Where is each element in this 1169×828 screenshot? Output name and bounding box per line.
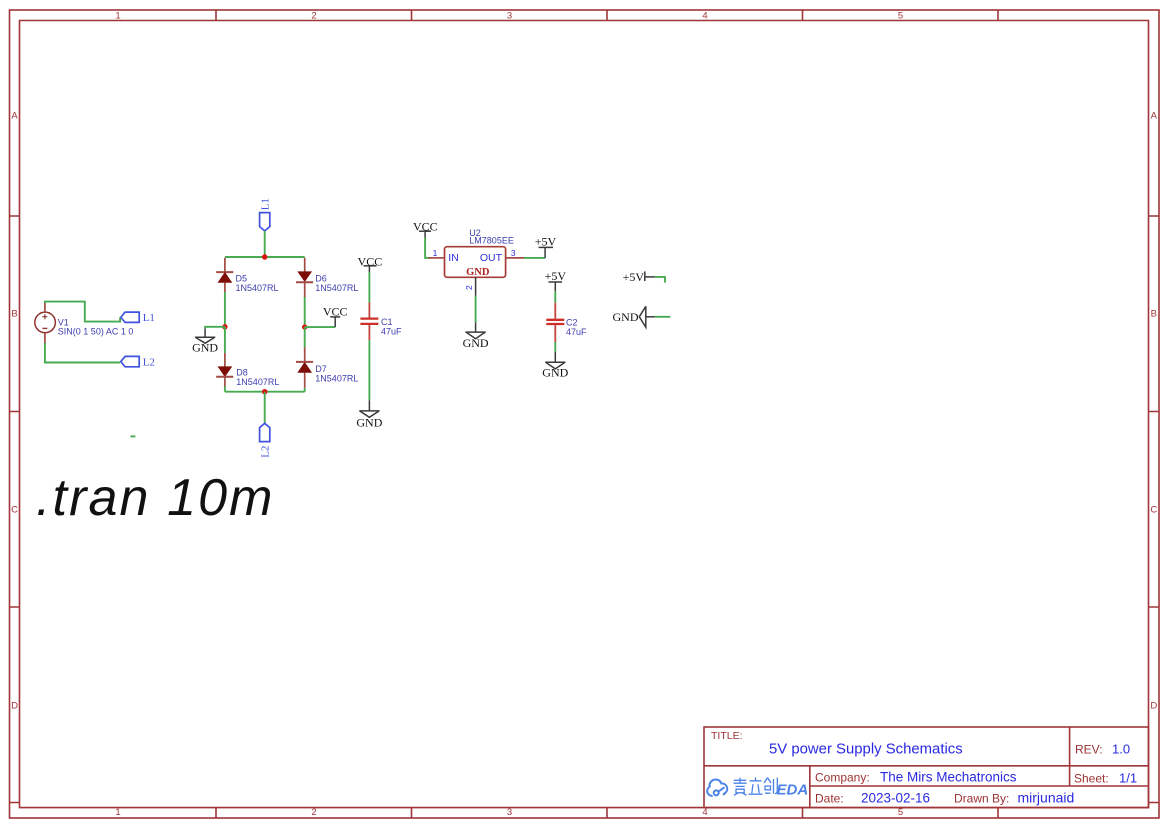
svg-text:D6: D6 bbox=[315, 274, 327, 284]
svg-text:D7: D7 bbox=[315, 364, 327, 374]
svg-text:VCC: VCC bbox=[323, 304, 348, 318]
frame row letters right bbox=[1150, 111, 1157, 712]
wire V1 bottom to L2 bbox=[45, 343, 120, 363]
svg-text:OUT: OUT bbox=[480, 252, 503, 264]
C1 labels bbox=[381, 317, 402, 337]
wire pin3 to +5V bbox=[524, 257, 545, 259]
wire C1 to GND bbox=[368, 340, 370, 400]
svg-text:mirjunaid: mirjunaid bbox=[1018, 790, 1075, 806]
svg-text:SIN(0 1 50) AC 1 0: SIN(0 1 50) AC 1 0 bbox=[58, 326, 134, 336]
svg-text:2: 2 bbox=[311, 11, 316, 22]
svg-text:C2: C2 bbox=[566, 318, 578, 328]
svg-text:2: 2 bbox=[311, 807, 316, 818]
svg-text:3: 3 bbox=[507, 11, 512, 22]
wire +5V to C2 bbox=[554, 291, 556, 302]
svg-text:IN: IN bbox=[448, 252, 459, 264]
stray wire dash bbox=[130, 435, 135, 437]
svg-text:A: A bbox=[1151, 111, 1158, 122]
diode D8 bbox=[216, 353, 233, 387]
wire D8 to bottom rail bbox=[224, 387, 226, 392]
diode D6 bbox=[296, 258, 313, 297]
voltage source V1 bbox=[35, 303, 56, 343]
svg-text:1: 1 bbox=[115, 11, 120, 22]
svg-text:Drawn By:: Drawn By: bbox=[954, 792, 1009, 806]
title block bbox=[704, 727, 1149, 808]
svg-text:1N5407RL: 1N5407RL bbox=[315, 283, 358, 293]
capacitor C2 bbox=[546, 303, 564, 342]
D5 labels bbox=[236, 274, 279, 294]
svg-text:LM7805EE: LM7805EE bbox=[469, 236, 514, 246]
svg-text:Sheet:: Sheet: bbox=[1074, 772, 1109, 786]
svg-text:B: B bbox=[11, 309, 17, 320]
wire right junction to VCC stub bbox=[305, 326, 336, 328]
svg-text:GND: GND bbox=[356, 416, 382, 430]
svg-text:1N5407RL: 1N5407RL bbox=[236, 377, 279, 387]
svg-text:D5: D5 bbox=[236, 274, 248, 284]
svg-text:1.0: 1.0 bbox=[1112, 742, 1130, 757]
svg-text:L1: L1 bbox=[143, 312, 155, 324]
junction bridge right bbox=[302, 324, 307, 329]
wire pin2 to GND bbox=[475, 296, 477, 322]
svg-text:GND: GND bbox=[613, 310, 639, 324]
svg-text:EDA: EDA bbox=[777, 782, 809, 799]
svg-text:2: 2 bbox=[464, 285, 474, 290]
svg-text:+5V: +5V bbox=[623, 270, 645, 284]
C2 labels bbox=[566, 318, 587, 338]
wire left junction down bbox=[224, 327, 226, 353]
ground (C2) bbox=[545, 352, 565, 369]
svg-text:C: C bbox=[1150, 505, 1157, 516]
V1 labels bbox=[58, 318, 134, 337]
svg-text:2023-02-16: 2023-02-16 bbox=[861, 791, 930, 806]
net flag L2 (bridge bottom) bbox=[260, 423, 270, 441]
svg-text:4: 4 bbox=[702, 807, 707, 818]
svg-text:3: 3 bbox=[507, 807, 512, 818]
logo char 创 bbox=[764, 778, 777, 794]
power flag +5V (U2 out) bbox=[539, 247, 554, 258]
svg-text:VCC: VCC bbox=[358, 254, 383, 268]
ground (C1) bbox=[359, 400, 379, 417]
svg-text:C: C bbox=[11, 505, 18, 516]
svg-text:5V power Supply Schematics: 5V power Supply Schematics bbox=[769, 742, 963, 758]
wire D6 to right junction bbox=[304, 297, 306, 327]
svg-text:L1: L1 bbox=[259, 198, 271, 210]
svg-text:REV:: REV: bbox=[1075, 743, 1103, 757]
svg-text:1/1: 1/1 bbox=[1119, 771, 1137, 786]
svg-text:Company:: Company: bbox=[815, 771, 870, 785]
wire +5V floating bbox=[655, 277, 665, 283]
junction bridge top bbox=[262, 254, 267, 259]
EasyEDA logo cloud bbox=[707, 779, 727, 795]
svg-text:1: 1 bbox=[115, 807, 120, 818]
diode D7 bbox=[296, 348, 313, 388]
junction bridge left bbox=[222, 324, 227, 329]
pin 3 bbox=[506, 257, 524, 259]
net flag L1 (left) bbox=[121, 312, 139, 322]
wire V1 top to L1 bbox=[45, 302, 120, 322]
svg-text:B: B bbox=[1151, 309, 1157, 320]
pin 2 bbox=[475, 277, 477, 296]
net port +5V (floating) bbox=[623, 270, 655, 284]
svg-text:L2: L2 bbox=[143, 357, 155, 369]
net port GND (floating) bbox=[613, 306, 655, 327]
wire L1 to bridge top bbox=[264, 231, 266, 257]
power flag +5V (C2) bbox=[549, 282, 563, 291]
op-amp U2 regulator box bbox=[445, 247, 506, 278]
svg-text:5: 5 bbox=[898, 11, 903, 22]
wire bottom rail to L2 bbox=[264, 392, 266, 423]
svg-text:GND: GND bbox=[466, 267, 490, 278]
wire GND floating bbox=[655, 316, 670, 318]
svg-text:1N5407RL: 1N5407RL bbox=[315, 374, 358, 384]
svg-text:1N5407RL: 1N5407RL bbox=[236, 283, 279, 293]
svg-text:47uF: 47uF bbox=[381, 327, 402, 337]
diode D5 bbox=[216, 258, 233, 293]
svg-text:L2: L2 bbox=[259, 446, 271, 458]
wire VCC to U2 pin1 bbox=[425, 238, 429, 258]
svg-text:+5V: +5V bbox=[545, 269, 567, 283]
svg-text:4: 4 bbox=[702, 11, 707, 22]
svg-text:D8: D8 bbox=[236, 367, 248, 377]
capacitor C1 bbox=[360, 303, 378, 341]
svg-text:.tran 10m: .tran 10m bbox=[36, 469, 275, 527]
svg-text:A: A bbox=[11, 111, 18, 122]
svg-text:TITLE:: TITLE: bbox=[711, 730, 743, 742]
logo char 嘉 bbox=[734, 778, 747, 796]
wire left junction to GND stub bbox=[205, 327, 225, 329]
svg-text:The Mirs Mechatronics: The Mirs Mechatronics bbox=[880, 770, 1017, 785]
U2 labels bbox=[469, 228, 514, 246]
wire bridge bottom rail bbox=[225, 391, 305, 393]
svg-text:VCC: VCC bbox=[413, 220, 438, 234]
D8 labels bbox=[236, 367, 279, 387]
svg-text:47uF: 47uF bbox=[566, 327, 587, 337]
frame column numbers bottom bbox=[115, 807, 903, 818]
svg-text:Date:: Date: bbox=[815, 792, 844, 806]
power flag VCC (U2 input) bbox=[419, 231, 431, 237]
svg-text:D: D bbox=[11, 701, 18, 712]
ground (bridge left) bbox=[195, 329, 215, 344]
wire right junction down bbox=[304, 327, 306, 347]
power flag VCC (bridge) bbox=[330, 317, 340, 327]
D6 labels bbox=[315, 274, 358, 294]
svg-text:1: 1 bbox=[433, 248, 438, 258]
power flag VCC (C1) bbox=[364, 266, 377, 272]
logo char 立 bbox=[749, 777, 763, 794]
svg-text:GND: GND bbox=[192, 340, 218, 354]
junction bridge bottom bbox=[262, 389, 267, 394]
D7 labels bbox=[315, 364, 358, 384]
wire D5 to left junction bbox=[224, 292, 226, 327]
net flag L2 (left) bbox=[121, 356, 139, 366]
svg-text:C1: C1 bbox=[381, 317, 393, 327]
pin 1 bbox=[429, 257, 445, 259]
frame column numbers top bbox=[115, 11, 903, 22]
svg-text:GND: GND bbox=[542, 366, 568, 380]
svg-text:5: 5 bbox=[898, 807, 903, 818]
net flag L1 (bridge top) bbox=[260, 213, 270, 231]
frame row letters left bbox=[11, 111, 18, 712]
svg-text:D: D bbox=[1150, 701, 1157, 712]
wire bridge top rail bbox=[225, 256, 305, 258]
wire D7 to bottom rail bbox=[304, 388, 306, 392]
svg-text:GND: GND bbox=[463, 336, 489, 350]
wire VCC to C1 bbox=[368, 272, 370, 303]
wire C2 to GND bbox=[554, 342, 556, 352]
svg-text:+5V: +5V bbox=[535, 234, 557, 248]
ground (U2) bbox=[465, 322, 485, 338]
svg-text:3: 3 bbox=[511, 248, 516, 258]
